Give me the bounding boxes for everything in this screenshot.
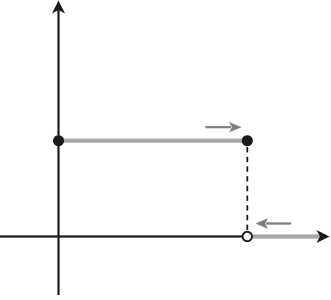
dashed line bbox=[246, 147, 248, 232]
closed dot right bbox=[242, 135, 253, 146]
arrow right (upper) bbox=[206, 126, 232, 128]
y-axis arrowhead bbox=[52, 1, 65, 14]
closed dot left bbox=[53, 135, 64, 146]
x-axis bbox=[0, 235, 322, 237]
segment upper gray bbox=[59, 139, 248, 143]
y-axis bbox=[57, 6, 59, 295]
x-axis arrowhead bbox=[317, 230, 330, 243]
open dot bbox=[243, 232, 252, 241]
arrow left (lower) bbox=[266, 222, 291, 224]
segment lower gray ray bbox=[253, 234, 324, 238]
